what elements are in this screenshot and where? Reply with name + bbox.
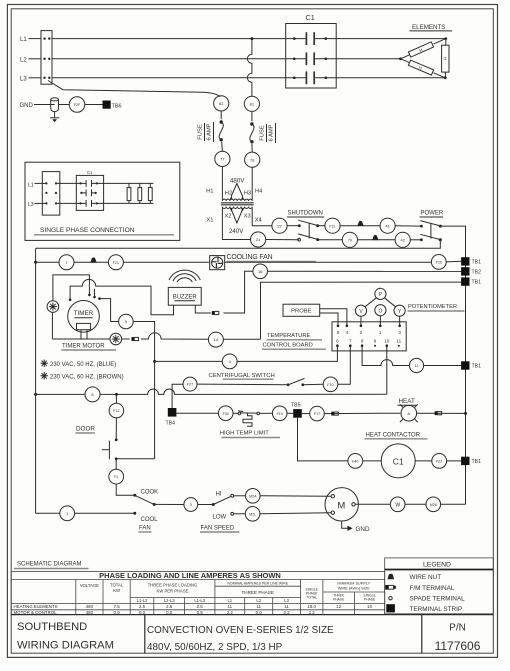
wire star lamp bottom to timer motor line bbox=[51, 312, 53, 339]
wire 79 to 42 with wire nut bbox=[358, 239, 396, 241]
node delta vertex left bbox=[399, 57, 402, 60]
svg-text:42: 42 bbox=[400, 237, 405, 242]
board pin 4 bbox=[346, 325, 349, 336]
terminal strip TB1 (contactor row) bbox=[461, 457, 481, 465]
wire junction to F12 bbox=[115, 394, 117, 403]
svg-text:CONVECTION OVEN E-SERIES 1/2 S: CONVECTION OVEN E-SERIES 1/2 SIZE bbox=[147, 625, 334, 636]
table column header VOLTAGE bbox=[80, 583, 99, 588]
wire cooling fan to F20 bbox=[225, 261, 432, 263]
wire tag 78 bbox=[245, 152, 260, 167]
svg-text:L2-L3: L2-L3 bbox=[164, 598, 175, 603]
label H3 bbox=[244, 190, 251, 196]
ground lug (cylinder) bbox=[51, 98, 59, 112]
svg-text:HEAT CONTACTOR: HEAT CONTACTOR bbox=[366, 433, 421, 439]
buzzer BUZZER bbox=[168, 287, 201, 305]
svg-text:41: 41 bbox=[385, 223, 390, 228]
wire tag 11 bbox=[409, 358, 423, 372]
terminal strip TB1 (tag 11 row) bbox=[461, 361, 481, 369]
wire C1 coil to F22 bbox=[415, 460, 432, 462]
switch FAN selector (cook/cool) bbox=[133, 494, 155, 515]
wire tag F27 bbox=[183, 377, 197, 391]
board pin 11 bbox=[396, 339, 401, 347]
contactor C1 label bbox=[306, 13, 315, 22]
svg-text:TB5: TB5 bbox=[291, 402, 301, 408]
svg-text:F10: F10 bbox=[327, 383, 333, 387]
contactor C1 contact pole 2 bbox=[293, 52, 327, 65]
wire contactor to elements bottom rail (single phase) bbox=[92, 202, 154, 204]
wire tag 7 bbox=[59, 255, 74, 270]
wire lug to F2F bbox=[59, 104, 70, 106]
svg-text:F12: F12 bbox=[113, 409, 119, 413]
board pin 1 bbox=[379, 325, 382, 336]
wire TB4 to F30 bbox=[176, 412, 218, 414]
node junction rail row8 bbox=[34, 393, 37, 396]
wire tag F19 bbox=[272, 406, 287, 421]
label L3 (single phase) bbox=[28, 202, 34, 208]
svg-text:TB1: TB1 bbox=[472, 259, 482, 265]
svg-text:POTENTIOMETER: POTENTIOMETER bbox=[408, 304, 457, 310]
wire probe to pin 5 bbox=[320, 313, 338, 326]
svg-text:22: 22 bbox=[277, 223, 282, 228]
label DOOR bbox=[76, 426, 96, 434]
wire tag 21 bbox=[251, 232, 266, 247]
svg-text:F/M TERMINAL: F/M TERMINAL bbox=[410, 585, 455, 592]
svg-text:A: A bbox=[408, 412, 411, 416]
switch SHUTDOWN (2-pole) bbox=[298, 220, 320, 241]
svg-text:SCHEMATIC DIAGRAM: SCHEMATIC DIAGRAM bbox=[17, 562, 82, 568]
wire 8 to pin10 column (hops over cols 154.6 and 172.1) bbox=[100, 389, 387, 396]
wire L3 to elements bbox=[52, 77, 445, 79]
svg-text:CONTROL BOARD: CONTROL BOARD bbox=[263, 343, 313, 349]
indicator lamp star (timer left) bbox=[47, 301, 59, 313]
legend box bbox=[385, 558, 494, 614]
node L2 label bbox=[20, 57, 27, 63]
wire timer terminal to buzzer (hops) bbox=[69, 279, 174, 314]
single phase connection box bbox=[25, 162, 180, 240]
switch centrifugal bbox=[287, 378, 305, 386]
board pin 2 bbox=[360, 325, 363, 336]
svg-text:TERMINAL STRIP: TERMINAL STRIP bbox=[410, 606, 463, 613]
wire L3 diagonal to fuse 82 bbox=[48, 81, 220, 97]
contactor C1 box (single phase) bbox=[76, 175, 103, 210]
svg-text:ELEMENTS: ELEMENTS bbox=[412, 24, 445, 31]
label FAN bbox=[139, 525, 152, 532]
board pin 3 bbox=[398, 325, 401, 336]
board pin 8 bbox=[361, 339, 364, 348]
svg-text:81: 81 bbox=[250, 101, 255, 106]
wire shutdown to F2L bbox=[318, 225, 325, 227]
svg-text:1: 1 bbox=[379, 330, 382, 335]
wire shutdown to 79 bbox=[318, 239, 342, 241]
wire rail to tag 7 bbox=[36, 261, 59, 263]
wire tag 42 bbox=[395, 232, 410, 247]
fuse F2 6A (right) bbox=[250, 122, 254, 143]
wire door junction to fan selector column bbox=[116, 458, 154, 460]
wire 82 to fuse1 bbox=[220, 111, 222, 119]
cooling fan motor bbox=[210, 256, 225, 270]
svg-text:7.5: 7.5 bbox=[114, 604, 121, 609]
svg-text:M: M bbox=[337, 500, 345, 511]
wire 78 to transformer H4 bbox=[251, 167, 253, 200]
heating element H vertical bbox=[442, 45, 449, 72]
wire tag F30 bbox=[218, 406, 233, 421]
table column header THREE PHASE LOADING KW PER PHASE bbox=[148, 583, 198, 594]
svg-text:COOL: COOL bbox=[141, 517, 159, 523]
svg-text:SINGLE PHASE CONNECTION: SINGLE PHASE CONNECTION bbox=[40, 227, 135, 234]
svg-text:GND: GND bbox=[20, 103, 34, 109]
GND label bbox=[20, 103, 34, 109]
label COOLING FAN bbox=[227, 254, 317, 262]
F/M terminal (heat row left) bbox=[331, 412, 338, 416]
svg-text:6 AMP: 6 AMP bbox=[269, 124, 275, 141]
label H4 bbox=[255, 188, 263, 194]
svg-text:H1: H1 bbox=[206, 188, 213, 194]
table column header L1-L2 L2-L3 L1-L3 bbox=[137, 598, 206, 603]
wire 3 to fan speed switch bbox=[198, 504, 214, 506]
wire F17 to heat lamp bbox=[324, 412, 400, 414]
switch POWER (2-pole) bbox=[420, 221, 442, 242]
label TIMER MOTOR bbox=[62, 344, 117, 351]
svg-text:F40: F40 bbox=[352, 460, 358, 464]
svg-text:L3: L3 bbox=[28, 202, 34, 208]
heating element H lower diagonal bbox=[408, 60, 433, 75]
svg-text:SPADE TERMINAL: SPADE TERMINAL bbox=[410, 596, 466, 603]
svg-text:SHUTDOWN: SHUTDOWN bbox=[288, 211, 323, 217]
legend terminal strip symbol bbox=[386, 604, 462, 613]
svg-text:C1: C1 bbox=[87, 170, 93, 175]
label X1 bbox=[206, 217, 213, 223]
switch FAN SPEED (hi/low) bbox=[212, 494, 234, 515]
svg-text:F1: F1 bbox=[114, 475, 118, 479]
node delta vertex top bbox=[444, 37, 447, 40]
wire nut (row 41) bbox=[357, 221, 363, 226]
wire F12 to door switch bbox=[115, 418, 117, 440]
legend spade terminal symbol bbox=[389, 596, 465, 603]
svg-text:DOOR: DOOR bbox=[76, 426, 95, 433]
svg-text:79: 79 bbox=[348, 238, 352, 242]
switch high temp limit (thermal) bbox=[238, 411, 259, 427]
node junction heat row rail bbox=[464, 412, 467, 415]
svg-text:X4: X4 bbox=[255, 217, 263, 223]
wire block to contactor row1 bbox=[56, 182, 86, 184]
wire timer terminal stub (to buzzer line) bbox=[93, 289, 96, 299]
wire M26 to rail bbox=[441, 503, 466, 505]
table row MOTOR & CONTROL bbox=[14, 610, 316, 615]
wire 16 to TB2 bbox=[268, 270, 462, 272]
label 480V bbox=[230, 177, 245, 184]
wire tag 81 bbox=[244, 96, 259, 111]
wire timer motor legs bbox=[81, 330, 87, 339]
wire heat lamp to rail bbox=[417, 412, 466, 414]
label C1 (single phase contactor) bbox=[87, 170, 93, 175]
wire door switch to F1 bbox=[115, 459, 117, 469]
wire nut (row 42) bbox=[372, 235, 378, 240]
label FUSE 6 AMP (right) bbox=[260, 123, 276, 143]
board pin 9 bbox=[374, 339, 377, 347]
svg-text:HI: HI bbox=[216, 492, 222, 498]
svg-text:5: 5 bbox=[337, 330, 340, 335]
wire tag M2A bbox=[246, 489, 261, 504]
svg-text:TOTAL: TOTAL bbox=[110, 583, 124, 588]
table column header MINIMUM SUPPLY WIRE (AWG) SIZE bbox=[337, 582, 370, 591]
terminal strip TB1 (fan row) bbox=[461, 257, 481, 265]
svg-text:1177606: 1177606 bbox=[435, 639, 481, 653]
label POTENTIOMETER bbox=[408, 304, 465, 311]
svg-text:WIRE NUT: WIRE NUT bbox=[410, 574, 442, 581]
wire TB5 to F17 bbox=[302, 413, 310, 415]
svg-text:TIMER MOTOR: TIMER MOTOR bbox=[62, 344, 105, 350]
title CONVECTION OVEN E-SERIES 1/2 SIZE bbox=[147, 625, 334, 653]
contactor C1 pole 3 (single phase) bbox=[79, 200, 98, 207]
svg-text:9: 9 bbox=[374, 339, 377, 344]
svg-text:WIRING DIAGRAM: WIRING DIAGRAM bbox=[17, 640, 114, 652]
svg-text:7: 7 bbox=[349, 339, 352, 344]
svg-text:KW: KW bbox=[113, 588, 120, 593]
wire L2 lead-in bbox=[29, 58, 42, 60]
wire buzzer right lead to tag 16 bbox=[195, 271, 253, 313]
wire TB5 to heat contactor coil bbox=[298, 418, 348, 461]
wire tag F21 bbox=[108, 255, 123, 270]
transformer T1 primary winding bbox=[222, 199, 252, 201]
label 240V bbox=[229, 228, 244, 235]
node delta vertex bottom bbox=[444, 76, 447, 79]
label HEAT bbox=[398, 398, 417, 406]
svg-text:BUZZER: BUZZER bbox=[173, 295, 198, 301]
svg-text:18.0: 18.0 bbox=[307, 604, 316, 609]
wire X4 to tag 22 bbox=[252, 208, 272, 226]
svg-text:CENTRIFUGAL SWITCH: CENTRIFUGAL SWITCH bbox=[209, 373, 275, 379]
label H2 bbox=[225, 190, 232, 196]
svg-text:VOLTAGE: VOLTAGE bbox=[80, 583, 99, 588]
wire L1 to elements bbox=[52, 38, 446, 40]
svg-text:L1: L1 bbox=[20, 37, 27, 43]
wire F19 to TB5 bbox=[287, 412, 293, 414]
wire L2 to elements bbox=[52, 58, 401, 60]
wire tag 8 bbox=[85, 387, 100, 402]
legend wire nut symbol bbox=[388, 574, 442, 582]
wire tag F12 bbox=[109, 403, 124, 418]
contactor C1 box bbox=[286, 24, 337, 89]
svg-text:FAN SPEED: FAN SPEED bbox=[201, 525, 235, 531]
svg-text:TB2: TB2 bbox=[472, 270, 482, 276]
svg-text:2.5: 2.5 bbox=[166, 604, 173, 609]
wire 11 to TB1 bbox=[424, 365, 462, 367]
wire 21 to shutdown switch bbox=[266, 239, 299, 241]
wire tag 77 bbox=[215, 151, 230, 166]
wire delta lower diagonal ends bbox=[401, 59, 446, 78]
wire 42 to power switch bbox=[410, 239, 421, 241]
svg-text:PHASE LOADING AND LINE AMPERES: PHASE LOADING AND LINE AMPERES AS SHOWN bbox=[99, 571, 281, 580]
title SOUTHBEND WIRING DIAGRAM bbox=[17, 621, 114, 652]
svg-text:8: 8 bbox=[361, 339, 364, 344]
contactor C1 contact pole 1 bbox=[293, 32, 327, 45]
wire P to V bbox=[365, 298, 376, 307]
node junction L1 drop bbox=[250, 37, 253, 40]
wire block to contactor row3 bbox=[56, 202, 86, 204]
wire Y to pin 3 bbox=[399, 316, 401, 326]
table row HEATING ELEMENTS bbox=[14, 604, 373, 609]
terminal block TB (mains input) bbox=[41, 31, 52, 85]
wire F1 to cook contact bbox=[116, 484, 135, 495]
potentiometer V circle bbox=[355, 305, 366, 316]
wire F30 to high temp limit bbox=[233, 412, 238, 414]
svg-text:HEAT: HEAT bbox=[399, 398, 415, 405]
wire O to pin 1 bbox=[379, 316, 381, 326]
svg-text:P/N: P/N bbox=[449, 623, 466, 634]
wire tag 41 bbox=[380, 218, 395, 233]
svg-text:H3: H3 bbox=[244, 190, 251, 196]
svg-text:L3: L3 bbox=[284, 598, 289, 603]
wire 41 to power switch bbox=[395, 225, 421, 227]
transformer T1 primary jumper H2-H3 bbox=[230, 184, 245, 200]
wire tag F10 bbox=[323, 377, 338, 392]
svg-text:F2L: F2L bbox=[329, 224, 335, 228]
svg-text:230 VAC, 50 HZ, (BLUE): 230 VAC, 50 HZ, (BLUE) bbox=[50, 362, 116, 368]
svg-text:21: 21 bbox=[256, 237, 261, 242]
svg-text:WIRE (AWG) SIZE: WIRE (AWG) SIZE bbox=[338, 586, 370, 590]
wire F2F to TB6 bbox=[85, 104, 103, 106]
label X4 bbox=[255, 217, 263, 223]
svg-text:F27: F27 bbox=[187, 383, 193, 387]
svg-text:H2: H2 bbox=[225, 190, 232, 196]
wire 22 to shutdown switch bbox=[287, 225, 299, 227]
label SCHEMATIC DIAGRAM bbox=[14, 562, 89, 569]
svg-text:6 AMP: 6 AMP bbox=[207, 123, 213, 140]
svg-text:240V: 240V bbox=[229, 228, 244, 235]
svg-text:480: 480 bbox=[86, 604, 94, 609]
svg-text:X2: X2 bbox=[224, 214, 231, 220]
wire 81 to fuse2 bbox=[251, 111, 253, 121]
svg-text:NOMINAL AMPERES PER LINE WIRE: NOMINAL AMPERES PER LINE WIRE bbox=[227, 581, 288, 585]
wire centrifugal switch to F10 bbox=[303, 383, 323, 386]
heating element H upper diagonal bbox=[408, 42, 433, 57]
legend F/M terminal symbol bbox=[385, 585, 455, 592]
wire contactor to elements top rail (single phase) bbox=[92, 182, 154, 184]
heating element 1 (single phase) bbox=[127, 183, 131, 203]
heating element 3 (single phase) bbox=[148, 183, 152, 203]
svg-text:KW PER PHASE: KW PER PHASE bbox=[157, 588, 189, 593]
svg-text:16: 16 bbox=[258, 269, 263, 274]
temperature control board box bbox=[332, 322, 406, 351]
svg-text:F2F: F2F bbox=[74, 103, 81, 107]
terminal strip TB1 (row3) bbox=[461, 277, 481, 285]
svg-text:TB4: TB4 bbox=[166, 421, 176, 427]
wire F21 to cooling fan bbox=[123, 261, 209, 263]
wire power switch lower to lower-section top rail bbox=[36, 240, 441, 248]
svg-text:3: 3 bbox=[398, 330, 401, 335]
wire tag F2F bbox=[69, 97, 85, 113]
table column header NOMINAL AMPERES PER LINE WIRE bbox=[227, 581, 288, 585]
contactor C1 pole 2 (single phase) bbox=[80, 190, 96, 197]
wire tag 1 bbox=[60, 506, 75, 521]
svg-text:C1: C1 bbox=[306, 13, 315, 22]
table column header THREE PHASE (wire) bbox=[333, 593, 345, 601]
phase loading table frame bbox=[11, 572, 385, 615]
wire F10 to board pin 7 bbox=[338, 346, 351, 385]
probe PROBE bbox=[283, 304, 320, 316]
svg-text:L1: L1 bbox=[28, 182, 34, 188]
ground symbol bbox=[50, 112, 59, 123]
svg-text:2.5: 2.5 bbox=[197, 604, 204, 609]
svg-text:LOW: LOW bbox=[213, 514, 227, 520]
wire motor to W bbox=[355, 503, 390, 505]
wire GND lead bbox=[34, 104, 51, 106]
heating element 2 (single phase) bbox=[138, 183, 142, 203]
svg-text:2: 2 bbox=[360, 330, 363, 335]
label CENTRIFUGAL SWITCH bbox=[209, 373, 275, 379]
table column header TOTAL KW bbox=[110, 583, 124, 594]
potentiometer Y circle bbox=[394, 305, 405, 316]
label HEAT CONTACTOR bbox=[365, 433, 428, 439]
transformer T1 core bbox=[221, 203, 254, 205]
svg-text:X3: X3 bbox=[244, 214, 251, 220]
wire row3 to TB1 bbox=[261, 282, 462, 339]
wire tag M26 bbox=[426, 497, 441, 512]
wire X1 to tag 21 bbox=[222, 208, 250, 240]
indicator lamp HEAT bbox=[400, 404, 418, 422]
svg-text:HEATING ELEMENTS: HEATING ELEMENTS bbox=[14, 604, 58, 609]
wire fuse2 to 78 bbox=[251, 144, 253, 152]
timer TIMER bbox=[68, 301, 100, 333]
contactor C1 pole 1 (single phase) bbox=[79, 180, 98, 187]
board pin 5 bbox=[337, 325, 340, 336]
svg-text:X1: X1 bbox=[206, 217, 213, 223]
svg-text:W: W bbox=[395, 502, 400, 508]
wire rail to tag 8 bbox=[36, 393, 85, 395]
wire hi contact to M2A bbox=[234, 495, 246, 497]
svg-text:COOK: COOK bbox=[141, 489, 159, 495]
wire F27 to centrifugal switch bbox=[197, 383, 288, 386]
wire left rail bbox=[35, 248, 37, 513]
svg-text:4: 4 bbox=[346, 330, 349, 335]
table header PHASE LOADING AND LINE AMPERES AS SHOWN bbox=[99, 571, 281, 580]
table column header SINGLE PHASE (wire) bbox=[364, 593, 377, 601]
fuse F1 6A (left) bbox=[219, 120, 223, 141]
wire power switch to right rail bbox=[440, 226, 465, 504]
table column header THREE PHASE bbox=[241, 590, 273, 595]
node L3 label bbox=[20, 76, 27, 82]
wire col from tag 9 junction dot bbox=[153, 360, 156, 363]
label COOL bbox=[141, 517, 159, 523]
wire W to M26 bbox=[405, 503, 426, 505]
wire L1 drop to fuse 81 (hops over L2 and L3) bbox=[247, 39, 252, 97]
svg-text:11: 11 bbox=[284, 604, 289, 609]
label L1 (single phase) bbox=[28, 182, 34, 188]
svg-text:480V, 50/60HZ, 2 SPD, 1/3 HP: 480V, 50/60HZ, 2 SPD, 1/3 HP bbox=[147, 642, 283, 653]
title P/N 1177606 bbox=[435, 623, 481, 654]
svg-text:L3: L3 bbox=[20, 76, 27, 82]
wire fuse1 to 77 bbox=[221, 142, 224, 151]
wire 7 to F21 with wire nut bbox=[74, 261, 108, 263]
wire board pin 8 to tag 11 (hops over pin10 col) bbox=[362, 346, 409, 366]
svg-text:O: O bbox=[378, 308, 382, 314]
svg-text:12: 12 bbox=[336, 604, 341, 609]
svg-text:SOUTHBEND: SOUTHBEND bbox=[17, 621, 87, 633]
ELEMENTS label bbox=[410, 24, 453, 31]
wire V to pin 2 bbox=[360, 316, 362, 326]
svg-text:TB1: TB1 bbox=[472, 459, 482, 465]
wire tag F17 bbox=[310, 406, 325, 421]
svg-text:HIGH TEMP LIMIT: HIGH TEMP LIMIT bbox=[220, 431, 270, 437]
F/M terminal (timer motor row) bbox=[132, 337, 139, 341]
svg-text:H4: H4 bbox=[255, 188, 263, 194]
svg-text:TB1: TB1 bbox=[472, 280, 482, 286]
label H1 bbox=[206, 188, 213, 194]
wire timer terminal to tag 9 bbox=[98, 297, 118, 321]
contactor coil C1 bbox=[381, 444, 415, 478]
svg-text:THREE PHASE: THREE PHASE bbox=[241, 590, 273, 595]
label LOW bbox=[213, 514, 227, 520]
